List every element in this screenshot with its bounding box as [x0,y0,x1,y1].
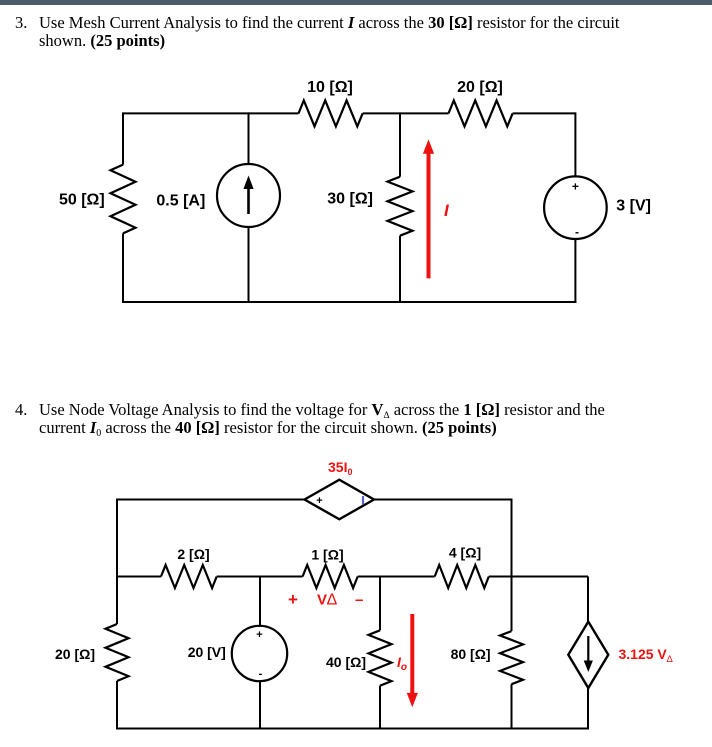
wire left branch upper [116,499,118,625]
label I (red) [444,201,450,220]
wire 40-ohm branch lower [379,686,381,730]
svg-text:20 [Ω]: 20 [Ω] [55,646,95,662]
svg-text:80 [Ω]: 80 [Ω] [451,646,491,662]
wire right branch bottom [574,239,576,303]
svg-text:V∆: V∆ [317,592,337,609]
svg-text:0.5 [A]: 0.5 [A] [156,192,205,209]
svg-text:2 [Ω]: 2 [Ω] [177,546,209,562]
problem 3 statement [15,14,620,50]
wire 30-ohm branch bottom [399,236,401,303]
wire current-source branch top [248,112,250,164]
wire 40-ohm branch upper [379,577,381,631]
resistor R 40 ohm [369,630,392,685]
label 50 ohm [59,191,105,208]
svg-text:-: - [575,225,579,239]
diamond minus tick [362,496,364,505]
svg-text:3 [V]: 3 [V] [616,198,651,215]
wire left branch lower [116,681,118,730]
label 1 ohm [311,547,343,563]
svg-text:1 [Ω]: 1 [Ω] [311,547,343,563]
resistor R 50 ohm [111,165,136,234]
current source arrow [243,176,253,215]
svg-text:-: - [259,668,263,680]
label 20 ohm (left) [55,646,95,662]
wire middle rail segment c [358,576,435,578]
resistor R 10 ohm [299,100,363,126]
label 35 Io (red) [328,459,352,477]
wire right vertical lower [511,684,513,729]
wire middle rail segment a [117,576,161,578]
svg-text:+: + [256,629,262,641]
dependent current source diamond 3.125 VDelta [568,622,608,688]
resistor R 2 ohm [161,565,217,588]
dependent source arrow [584,636,593,672]
wire middle rail segment d [489,576,588,578]
svg-text:Io: Io [397,654,407,673]
voltage source plus sign [572,180,579,194]
wire dependent source branch lower [587,688,589,730]
resistor R 4 ohm [435,565,489,588]
svg-text:4 [Ω]: 4 [Ω] [449,545,481,561]
svg-text:+: + [288,590,298,609]
svg-text:35I0: 35I0 [328,459,352,477]
wire top rail left segment [117,499,305,501]
resistor R 80 ohm [500,631,523,684]
resistor R 1 ohm [303,565,358,588]
wire 30-ohm branch top [399,112,401,176]
current I arrow (red) [423,139,434,278]
resistor R 20 ohm (left) [106,624,129,681]
wire bottom rail [116,728,589,730]
label 30 ohm [327,191,373,208]
label 20 ohm [457,79,503,96]
label 0.5 A [156,192,205,209]
wire right vertical middle [511,577,513,632]
resistor R 20 ohm [449,100,513,126]
diamond plus sign [316,495,322,507]
wire middle rail segment b [217,576,303,578]
label 40 ohm [326,654,366,670]
problem 4 statement [15,401,605,437]
current source 0.5 A circle [217,164,280,227]
wire right vertical upper [511,499,513,577]
voltage source minus sign [575,225,579,239]
wire 20V branch lower [259,681,261,730]
svg-text:20 [V]: 20 [V] [188,644,226,660]
wire right branch top [574,112,576,176]
current Io arrow (red) [407,614,418,707]
svg-text:20 [Ω]: 20 [Ω] [457,79,503,96]
voltage source 3 V circle [544,176,607,239]
label 4 ohm [449,545,481,561]
wire top rail left segment [123,112,299,114]
svg-text:–: – [355,592,363,609]
label 80 ohm [451,646,491,662]
label 10 ohm [307,79,353,96]
wire dependent source branch upper [587,577,589,622]
label Io (red) [397,654,407,673]
svg-text:+: + [572,180,579,194]
wire left branch bottom [122,233,124,303]
svg-text:30 [Ω]: 30 [Ω] [327,191,373,208]
svg-text:I: I [444,201,450,220]
voltage source 20V plus sign [256,629,262,641]
svg-text:40 [Ω]: 40 [Ω] [326,654,366,670]
wire current-source branch bottom [248,227,250,303]
voltage source 20 V circle [232,626,287,681]
svg-text:50 [Ω]: 50 [Ω] [59,191,105,208]
wire 20V branch upper [259,577,261,627]
label 2 ohm [177,546,209,562]
wire top rail middle segment [363,112,449,114]
wire left branch top [122,112,124,164]
resistor R 30 ohm [388,177,413,236]
voltage source 20V minus sign [259,668,263,680]
window top bar [0,0,712,5]
label 3 V [616,198,651,215]
dependent voltage source diamond 35Io [305,480,375,520]
label +VDelta- (red) [288,590,363,609]
svg-text:10 [Ω]: 10 [Ω] [307,79,353,96]
label 3.125 VDelta (red) [619,646,673,665]
svg-text:+: + [316,495,322,507]
wire bottom rail [122,301,576,303]
wire top rail right segment [374,499,512,501]
svg-text:3.125 V∆: 3.125 V∆ [619,646,673,665]
wire top rail right segment [513,112,576,114]
label 20 V [188,644,226,660]
